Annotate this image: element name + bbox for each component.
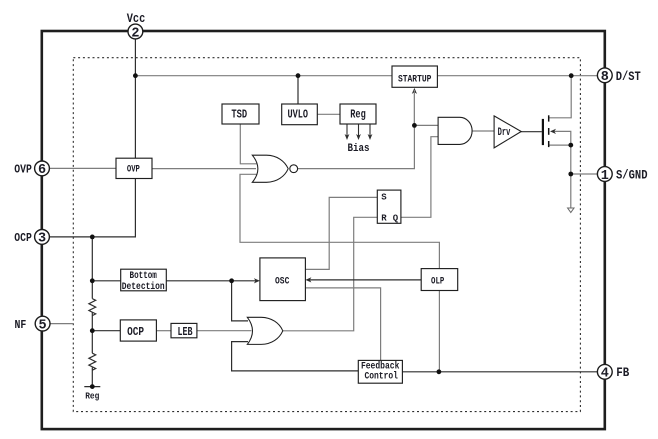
svg-text:Reg: Reg — [85, 391, 99, 402]
svg-text:Bottom: Bottom — [130, 270, 157, 281]
svg-text:6: 6 — [38, 163, 46, 178]
svg-text:Drv: Drv — [498, 127, 511, 139]
svg-text:FB: FB — [616, 366, 629, 380]
svg-text:OLP: OLP — [431, 275, 444, 287]
svg-text:TSD: TSD — [231, 108, 247, 121]
svg-text:OCP: OCP — [127, 325, 144, 339]
svg-text:Reg: Reg — [350, 108, 366, 121]
svg-text:R: R — [381, 214, 387, 224]
svg-text:NF: NF — [15, 318, 27, 332]
svg-text:5: 5 — [39, 318, 47, 333]
svg-text:Control: Control — [364, 370, 398, 381]
svg-text:1: 1 — [601, 169, 609, 184]
svg-text:Detection: Detection — [122, 281, 165, 292]
svg-text:4: 4 — [601, 367, 609, 382]
svg-text:Vcc: Vcc — [127, 12, 146, 26]
svg-text:OVP: OVP — [14, 163, 32, 177]
svg-text:Bias: Bias — [348, 143, 370, 155]
svg-text:OCP: OCP — [14, 231, 32, 245]
svg-text:2: 2 — [131, 26, 139, 41]
svg-text:Q: Q — [393, 214, 399, 224]
svg-text:OVP: OVP — [127, 165, 140, 176]
svg-text:D/ST: D/ST — [616, 70, 641, 84]
svg-text:S/GND: S/GND — [616, 169, 648, 183]
svg-text:OSC: OSC — [275, 275, 289, 287]
svg-text:S: S — [381, 192, 387, 202]
svg-text:3: 3 — [38, 232, 46, 247]
svg-text:8: 8 — [601, 70, 609, 85]
svg-text:STARTUP: STARTUP — [398, 75, 432, 86]
svg-text:LEB: LEB — [177, 326, 192, 339]
svg-text:UVLO: UVLO — [287, 108, 308, 121]
